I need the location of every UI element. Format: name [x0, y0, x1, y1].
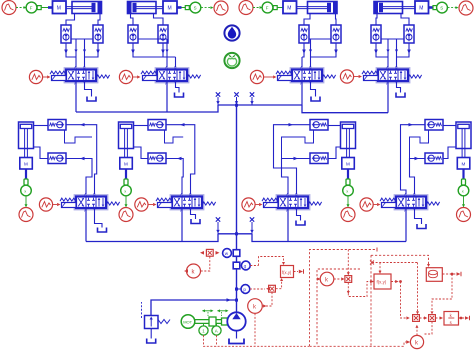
plug X1 — [216, 92, 220, 105]
plug X4 — [216, 217, 220, 234]
wire B-line — [175, 57, 177, 70]
wire cyl to FV1a — [34, 125, 49, 127]
multiplier MX3 — [413, 315, 420, 322]
integrator block INT — [444, 312, 459, 326]
sensor connector green — [462, 179, 466, 185]
multiplier MX1 — [266, 285, 275, 292]
wire cylinder ports to cb — [304, 14, 336, 26]
wire P8 drop — [405, 208, 407, 242]
valve V5 4/3 proportional — [60, 193, 120, 214]
svg-text:x: x — [462, 188, 464, 193]
pilot line dashed — [141, 302, 143, 318]
wire P drop — [75, 81, 77, 112]
wire P line to pump — [151, 298, 237, 315]
svg-text:M: M — [24, 162, 28, 167]
cylinder C5 (vertical) — [19, 122, 34, 158]
function block F2 — [374, 274, 391, 289]
wire T8 to tank — [415, 208, 422, 224]
counterbalance valve CB2b — [158, 25, 168, 43]
gain K2 — [410, 335, 423, 348]
cylinder C8 (vertical) — [456, 122, 471, 158]
wire dashed mx3 to mx4 — [420, 316, 428, 319]
wire crossover MG4 — [410, 130, 429, 159]
node top-column — [235, 104, 238, 107]
drive shaft — [195, 317, 228, 326]
wire — [41, 7, 48, 9]
svg-text:M: M — [419, 6, 423, 12]
wire dashed mx2 to f2 — [347, 280, 374, 297]
plug X3 — [250, 92, 254, 105]
wire cb joins — [302, 43, 338, 57]
signal source S7 — [242, 198, 263, 211]
counterbalance valve CB4b — [404, 25, 414, 43]
wire P5 drop — [85, 208, 87, 242]
tank T8 — [417, 224, 426, 229]
svg-text:x: x — [24, 188, 26, 193]
wire red dashed indicators to control — [204, 335, 310, 346]
wire bus right — [252, 234, 406, 242]
flow control valve FV310b — [310, 153, 328, 164]
speed sensor S4g — [433, 2, 447, 13]
valve V2 4/3 proportional — [141, 66, 201, 87]
cylinder C3 — [297, 2, 338, 14]
wire bus left — [76, 105, 218, 112]
oscilloscope plotter PL4 — [459, 1, 473, 15]
wire B-line — [83, 39, 86, 70]
cylinder C1 — [66, 2, 102, 14]
wire P drop — [166, 81, 168, 112]
wire B-line — [395, 39, 398, 70]
wire — [182, 7, 186, 9]
force sensor F1 — [26, 2, 41, 13]
signal wire (green dashed) — [16, 6, 27, 9]
wire dashed phi sensor to f1 top — [250, 257, 285, 266]
wire T to tank — [397, 81, 401, 93]
gain K1 — [317, 272, 334, 286]
sensor connector green — [346, 179, 350, 185]
counterbalance valve CB1a — [61, 25, 71, 43]
wire dashed mx4 to integrator — [436, 316, 444, 319]
flow control valve FV310a — [310, 120, 328, 131]
valve V3 4/3 proportional — [276, 66, 336, 87]
wire B-feed MG3 — [282, 157, 311, 197]
wire bridge — [381, 38, 404, 40]
counterbalance valve CB3a — [299, 25, 309, 43]
svg-text:M: M — [462, 162, 466, 167]
wire P6 drop — [181, 208, 183, 242]
flow sensor FS (square on column) — [223, 249, 240, 258]
speed indicator I1 — [199, 324, 208, 336]
wire dashed f2 out — [391, 280, 402, 283]
flow control valve FV425b — [425, 153, 443, 164]
wire dashed integrator out — [459, 316, 470, 320]
wire T to tank — [176, 81, 180, 93]
svg-text:p: p — [243, 287, 246, 292]
main pressure column — [236, 105, 238, 313]
wire pump to tank — [236, 331, 238, 339]
svg-text:M: M — [57, 6, 61, 12]
electric motor MOT — [181, 315, 195, 329]
wire dashed f1 out — [294, 269, 304, 273]
wire dashed line3 junction to f2 top and mx3 — [370, 261, 419, 315]
wire bridge — [138, 38, 167, 40]
wire red dashed MX0-K0 — [201, 257, 210, 272]
tank T5 — [98, 228, 107, 233]
wire bus right — [302, 105, 388, 113]
angle sensor PH (square on column) — [233, 261, 250, 270]
position sensor green — [343, 185, 354, 196]
wire bridge — [309, 38, 331, 40]
wire dashed k1 to mx2 — [334, 277, 345, 280]
torque indicator IA — [212, 324, 221, 336]
wire T6 to tank — [191, 208, 196, 219]
fluid properties icon — [224, 25, 239, 40]
wire dashed drum out — [443, 272, 462, 276]
valve V4 4/3 proportional — [362, 66, 422, 87]
svg-text:x: x — [124, 188, 126, 193]
svg-text:s: s — [450, 320, 452, 325]
position sensor green — [121, 185, 132, 196]
sensor connector green — [124, 179, 128, 185]
wire bridge — [71, 38, 93, 40]
wire B-feed MG4 — [410, 157, 426, 197]
wire green arrow — [462, 196, 465, 208]
valve V8 4/3 proportional — [380, 193, 440, 214]
flow control valve FV425a — [425, 120, 443, 131]
wire crossover MG1 — [65, 130, 93, 143]
wire — [277, 7, 283, 9]
wire P7 drop — [287, 208, 289, 242]
tank T4 — [396, 93, 405, 98]
wire — [433, 7, 436, 9]
oscilloscope plotter PM7 — [341, 208, 355, 222]
cylinder C7 (vertical) — [341, 122, 356, 158]
tank TR — [147, 339, 156, 344]
tank T6 — [191, 219, 200, 224]
multiplier MX4 — [429, 315, 436, 322]
wire cyl to FV3a — [328, 125, 341, 127]
signal source S1 — [29, 70, 50, 83]
wire P drop — [301, 81, 303, 105]
flow control valve FV48b — [48, 153, 66, 164]
oscilloscope plotter PM8 — [457, 208, 471, 222]
tank T2 — [175, 93, 184, 98]
wire relief to tank — [150, 329, 152, 339]
wire B-line — [309, 39, 312, 70]
svg-text:M: M — [287, 6, 291, 12]
svg-text:F: F — [30, 5, 33, 10]
wire dashed drum-junction to mx4 top — [431, 274, 453, 314]
wire T to tank — [311, 81, 316, 97]
wire dashed bottom edge to K2 — [310, 340, 411, 346]
svg-text:q: q — [244, 264, 247, 269]
valve V1 4/3 proportional — [50, 66, 110, 87]
signal source S4 — [340, 70, 362, 83]
wire crossover MG3 — [282, 130, 314, 159]
svg-text:f(x,y): f(x,y) — [377, 280, 387, 285]
mass M7 — [342, 158, 355, 170]
signal wire green dashed — [253, 6, 263, 9]
wire dashed k3 to mx1 — [262, 292, 272, 307]
signal wire green dashed — [448, 6, 459, 9]
wire stub below mass — [462, 169, 464, 179]
wire dashed mx4 bottom stub — [424, 322, 432, 335]
shaft arrows green dashed — [202, 309, 229, 316]
svg-text:F: F — [266, 5, 269, 10]
valve V7 4/3 proportional — [262, 193, 322, 214]
wire cyl to FV2a — [134, 125, 149, 127]
pressure sensor PS — [235, 285, 250, 294]
wire A-feed MG3 — [274, 123, 311, 197]
wire B-feed MG2 — [166, 123, 195, 197]
relief valve RV1 — [145, 316, 171, 329]
flow control valve FV148a — [148, 120, 166, 131]
wire cylinder ports to cb — [376, 14, 409, 26]
mass M4 — [415, 1, 433, 14]
signal source S3 — [250, 70, 276, 83]
sensor connector green — [24, 179, 28, 185]
wire stub below mass — [125, 169, 127, 179]
cylinder C6 (vertical) — [119, 122, 134, 158]
wire cyl to FV3b — [328, 147, 341, 159]
tank T3 — [311, 97, 320, 102]
valve V6 4/3 proportional — [156, 193, 216, 214]
signal source S5 — [39, 198, 60, 211]
plug X2 — [234, 92, 238, 105]
mass M5 — [20, 158, 33, 170]
tank TP — [229, 339, 244, 344]
svg-text:A: A — [215, 329, 218, 334]
mass M3 — [283, 1, 297, 14]
position sensor green — [458, 185, 469, 196]
data block DRUM — [426, 268, 442, 282]
wire bus left — [86, 234, 218, 242]
wire dashed mx1 out to f1 bottom — [276, 278, 283, 289]
wire cylinder ports to cb — [131, 14, 164, 26]
wire cb joins — [131, 43, 175, 57]
signal source S2 — [119, 70, 140, 83]
wire A-feed MG1 — [66, 157, 92, 197]
wire dashed top edge to mx2 — [347, 250, 350, 276]
svg-text:x: x — [346, 188, 348, 193]
mass M1 — [48, 1, 66, 14]
svg-text:f(x,y): f(x,y) — [282, 270, 292, 275]
wire T5 to tank — [95, 208, 103, 228]
speed sensor S2g — [185, 2, 201, 13]
cylinder C4 — [374, 2, 415, 14]
plug X5 — [250, 217, 254, 234]
position sensor green — [21, 185, 32, 196]
oscilloscope plotter PM6 — [119, 208, 133, 222]
counterbalance valve CB1b — [93, 25, 103, 43]
node mid-column — [235, 232, 238, 235]
wire A-feed MG2 — [166, 157, 183, 197]
wire stub below mass — [347, 169, 349, 179]
inner box dashed border — [317, 269, 360, 346]
wire T7 to tank — [297, 208, 301, 221]
gain K0 — [184, 264, 201, 278]
wire cyl to FV2b — [134, 147, 149, 159]
oscilloscope plotter PM5 — [19, 208, 33, 222]
signal source S8 — [360, 198, 381, 211]
wire A-line — [386, 39, 389, 70]
mass M2 — [163, 1, 182, 14]
wire cyl to FV4b — [443, 147, 456, 159]
wire dashed k2 to mx3 — [415, 325, 418, 336]
oscilloscope plotter PL1 — [2, 1, 16, 15]
group box dashed border — [310, 248, 378, 347]
wire green arrow — [347, 196, 350, 208]
svg-text:MOT: MOT — [183, 319, 192, 324]
wire dashed k3 to bottom bus — [254, 313, 256, 346]
multiplier MX0 (red) — [200, 249, 220, 256]
force sensor F3 — [262, 2, 277, 13]
counterbalance valve CB4a — [371, 25, 381, 43]
function block F1 — [281, 266, 294, 278]
wire A-line — [165, 39, 168, 70]
wire crossover MG2 — [165, 130, 184, 143]
wire bus center — [218, 104, 302, 106]
wire green arrow — [125, 196, 128, 208]
wire A-feed MG4 — [401, 123, 426, 197]
wire cb joins — [374, 43, 411, 57]
node pump-line — [235, 288, 238, 302]
flow control valve FV48a — [48, 120, 66, 131]
wire stub below mass — [25, 169, 27, 179]
wire cylinder ports to counterbalance valves — [66, 14, 100, 26]
pump P1 — [227, 312, 245, 330]
wire cyl to FV1b — [34, 147, 49, 159]
svg-text:M: M — [346, 162, 350, 167]
mass M8 — [457, 158, 470, 170]
multiplier MX2 — [345, 276, 352, 283]
svg-text:S: S — [194, 5, 197, 10]
tank T1 — [87, 97, 96, 102]
wire cyl to FV4a — [443, 125, 456, 127]
counterbalance valve CB2a — [128, 25, 138, 43]
oscilloscope plotter PL2 — [214, 1, 228, 15]
svg-text:M: M — [168, 6, 172, 12]
wire cb joins — [64, 43, 100, 57]
wire bus center — [218, 233, 252, 235]
svg-text:M: M — [124, 162, 128, 167]
wire dashed f2-junction down to mx3 left — [401, 282, 410, 320]
flow control valve FV148b — [148, 153, 166, 164]
oscilloscope plotter PL3 — [239, 1, 253, 15]
svg-text:S: S — [440, 5, 443, 10]
wire A-line — [301, 57, 303, 70]
wire B-feed MG1 — [66, 123, 97, 197]
wire A-line — [74, 39, 77, 70]
wire dashed riser W1 to drum — [371, 255, 430, 346]
environment icon — [224, 53, 239, 68]
counterbalance valve CB3b — [331, 25, 341, 43]
cylinder C2 — [128, 2, 164, 14]
signal wire green dashed — [201, 6, 214, 9]
gain K3 — [248, 299, 263, 314]
tank T7 — [296, 221, 305, 226]
signal source S6 — [135, 198, 157, 211]
wire green arrow — [25, 196, 28, 208]
mass M6 — [120, 158, 133, 170]
wire P drop — [387, 81, 389, 113]
wire dashed p sensor to mx1 — [250, 288, 265, 290]
wire T to tank — [85, 81, 92, 97]
